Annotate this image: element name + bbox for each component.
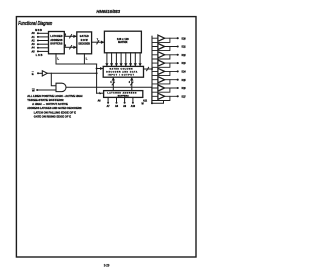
svg-text:GATED COLUMN: GATED COLUMN (110, 67, 133, 70)
svg-text:4: 4 (129, 81, 131, 84)
svg-text:A6: A6 (98, 99, 102, 102)
svg-text:DQ0: DQ0 (182, 37, 187, 40)
node dot bus bottom (151, 102, 153, 104)
pin dot DQ7 (177, 95, 179, 97)
bus arrow U1 to U2 (upper) (64, 35, 77, 38)
pin dot DQ2 (177, 54, 179, 56)
wire row 2 output (152, 54, 178, 56)
svg-text:A HIGH → OUTPUT ACTIVE: A HIGH → OUTPUT ACTIVE (32, 102, 68, 106)
svg-text:DQ4: DQ4 (182, 71, 187, 74)
pin W terminal dot (36, 89, 38, 91)
svg-text:A11: A11 (143, 99, 148, 102)
wire W pin to AND gate (37, 89, 56, 91)
svg-text:A2: A2 (32, 39, 36, 42)
pin dot DQ5 (177, 79, 179, 81)
svg-text:GATE ON RISING EDGE OF E: GATE ON RISING EDGE OF E (34, 115, 71, 119)
svg-text:A0: A0 (32, 32, 36, 35)
pin dot DQ4 (177, 70, 179, 72)
bus wire U4 to I/O buffers (144, 67, 153, 70)
box U2 gated row decoder (77, 32, 92, 54)
svg-text:DECODER AND DATA: DECODER AND DATA (106, 70, 137, 73)
gate arrow into U4 left (97, 67, 104, 70)
wire E pin to buffer (38, 72, 42, 74)
svg-text:LATCHED ADDRESS: LATCHED ADDRESS (107, 92, 137, 95)
pin dot DQ3 (177, 62, 179, 64)
buffer amp E (42, 71, 47, 76)
latch clock wire from U2 bottom (83, 54, 85, 64)
svg-text:A3: A3 (32, 43, 36, 46)
notes text block (27, 94, 82, 119)
AND gate G1 (56, 83, 66, 91)
svg-text:A1: A1 (32, 36, 36, 39)
svg-text:HM6516/883: HM6516/883 (96, 9, 120, 15)
matrix bit lines down to column decoder (105, 53, 141, 67)
svg-text:A7: A7 (107, 105, 111, 108)
wire row 7 output (152, 95, 178, 97)
pin dot DQ1 (177, 45, 179, 47)
svg-text:DQ2: DQ2 (182, 54, 187, 57)
svg-text:LSB: LSB (36, 54, 43, 57)
svg-text:BUFFERS: BUFFERS (118, 95, 130, 97)
wire row 4 output (152, 70, 178, 72)
pin W label (32, 89, 35, 93)
wire row 3 output (152, 62, 178, 64)
wire enable bottom run (152, 101, 164, 103)
svg-text:BUFFERS: BUFFERS (50, 44, 62, 46)
horizontal latch wire (56, 63, 97, 65)
svg-text:ALL LINES POSITIVE LOGIC - ACT: ALL LINES POSITIVE LOGIC - ACTIVE HIGH (27, 94, 82, 98)
node dot trunk/column-gate (96, 68, 98, 70)
svg-text:A9: A9 (123, 105, 127, 108)
vertical trunk wire E (96, 64, 98, 93)
svg-text:A8: A8 (115, 105, 119, 108)
svg-text:Functional Diagram: Functional Diagram (18, 21, 52, 27)
svg-text:DQ5: DQ5 (182, 79, 187, 82)
wire row 3 input return (152, 63, 170, 67)
svg-text:4: 4 (110, 81, 112, 84)
wire row 4 input return (152, 71, 170, 75)
wire E branch down to AND gate (51, 73, 56, 85)
wire E buffer output (47, 72, 96, 74)
wire row 6 output (152, 87, 178, 89)
box U5 latched address buffers (column) (104, 91, 143, 98)
svg-text:DQ6: DQ6 (182, 87, 187, 90)
svg-text:A10: A10 (131, 105, 136, 108)
wire row 1 input return (152, 47, 170, 51)
address input pins A0-A5 (38, 33, 49, 51)
wire trunk to U5 latch input (97, 92, 104, 94)
svg-text:LATCH ON FALLING EDGE OF E: LATCH ON FALLING EDGE OF E (34, 111, 76, 115)
I/O buffer bus vertical (151, 36, 153, 103)
node dot trunk/E (96, 72, 98, 74)
I/O buffer row 7 (DQ7) (158, 93, 165, 99)
wire row 6 input return (152, 88, 170, 92)
column address bus arrow U5 to U4 (right) (130, 77, 133, 90)
svg-text:DQ3: DQ3 (182, 62, 187, 65)
svg-text:A4: A4 (32, 47, 36, 50)
svg-text:E: E (32, 72, 34, 76)
I/O buffer row 1 (DQ1) (158, 43, 165, 49)
I/O buffer row 0 (DQ0) (158, 35, 165, 41)
pin dot DQ0 (177, 37, 179, 39)
svg-text:DQ7: DQ7 (182, 95, 187, 98)
I/O buffer row 3 (DQ3) (158, 60, 165, 66)
wire row 0 input return (152, 38, 170, 42)
pin dot DQ6 (177, 87, 179, 89)
latch clock wire from U1 bottom (55, 54, 57, 64)
svg-text:INPUT / OUTPUT: INPUT / OUTPUT (108, 74, 135, 76)
svg-text:MATRIX: MATRIX (118, 41, 128, 44)
bus arrow U1 to U2 (lower) (64, 46, 77, 49)
I/O buffer row 4 (DQ4) (158, 68, 165, 74)
wire row 7 input return (152, 96, 170, 100)
box U4 gated column decoder and data input/output (103, 66, 143, 77)
pin E label (32, 72, 34, 76)
svg-text:ADDRESS LATCHES AND GATED DECO: ADDRESS LATCHES AND GATED DECODERS: (27, 106, 82, 110)
svg-text:W: W (32, 89, 35, 93)
wire row 1 output (152, 46, 178, 48)
svg-text:L: L (57, 56, 59, 60)
page border frame (16, 17, 196, 257)
bus arrow U2 to matrix (92, 41, 105, 44)
wire row 5 output (152, 79, 178, 81)
svg-text:GATED: GATED (80, 35, 89, 38)
box U1 latched address buffers (row) (49, 32, 65, 54)
svg-text:MSB: MSB (35, 29, 42, 32)
svg-text:W: W (142, 104, 145, 106)
svg-text:L: L (86, 56, 88, 60)
node dot bus/data (151, 68, 153, 70)
pin E terminal dot (37, 72, 39, 74)
wire row 0 output (152, 37, 178, 39)
I/O buffer row 6 (DQ6) (158, 85, 165, 91)
wire row 2 input return (152, 55, 170, 59)
svg-text:ROW: ROW (81, 40, 89, 42)
svg-text:3-29: 3-29 (104, 264, 110, 268)
wire row 5 input return (152, 80, 170, 84)
I/O buffer row 5 (DQ5) (158, 77, 165, 83)
wire AND output enable line (66, 87, 152, 103)
svg-text:DECODER: DECODER (78, 44, 90, 46)
column address bus arrow U5 to U4 (left) (112, 77, 115, 90)
svg-text:LATCHED: LATCHED (50, 35, 62, 38)
box U3 memory matrix 128x128 (104, 31, 141, 53)
svg-text:ADDRESS: ADDRESS (50, 39, 62, 42)
svg-text:DQ1: DQ1 (182, 46, 187, 49)
svg-text:A5: A5 (32, 50, 36, 53)
address pins A6-A9 below U5 (107, 97, 134, 103)
I/O buffer row 2 (DQ2) (158, 52, 165, 58)
svg-text:THREE-STATE BUFFERS:: THREE-STATE BUFFERS: (27, 98, 64, 102)
